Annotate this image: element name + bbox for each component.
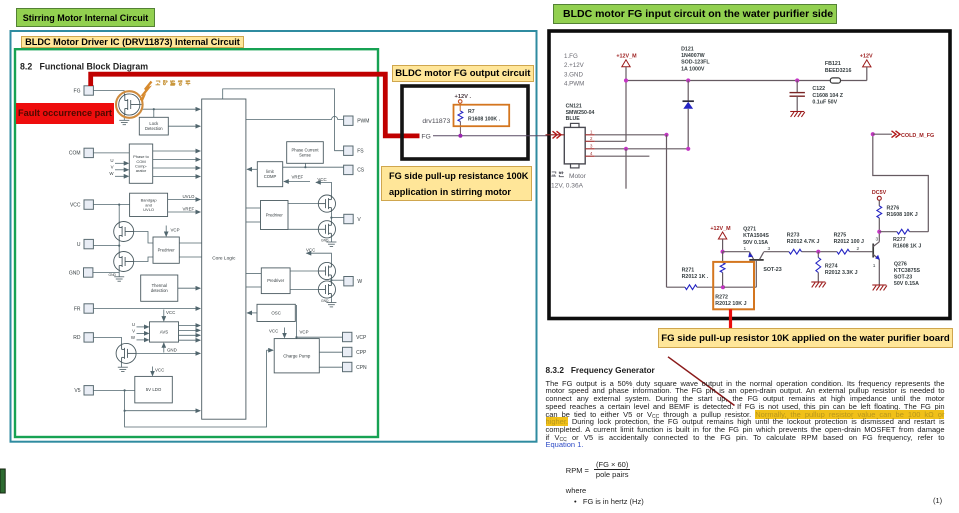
dark red stray annotation stroke over paragraph — [668, 357, 735, 406]
svg-text:SOT-23: SOT-23 — [894, 275, 912, 281]
orange highlight box around R7 — [454, 105, 510, 127]
svg-text:C1608 104 Z: C1608 104 Z — [812, 93, 843, 99]
svg-text:UVLO: UVLO — [183, 194, 196, 199]
svg-text:FR: FR — [74, 306, 81, 312]
right top predriver block — [261, 201, 289, 230]
connector pin stubs 1-4 — [585, 134, 595, 136]
pin FG — [84, 86, 93, 95]
pin V5 — [84, 386, 93, 395]
svg-text:GND: GND — [167, 348, 177, 353]
svg-text:Predriver: Predriver — [266, 212, 284, 217]
svg-text:V: V — [357, 217, 361, 223]
svg-text:Detection: Detection — [145, 126, 163, 131]
V phase node wires — [330, 212, 332, 221]
svg-text:Charge Pump: Charge Pump — [283, 353, 311, 358]
pin PWM — [344, 116, 353, 125]
V high-side mosfet — [318, 195, 335, 212]
net label COLD_M_FG with chevrons — [892, 131, 901, 138]
caption FG side pull-up resistance 100K application in stirring motor — [381, 166, 532, 201]
wire lock detection to core logic — [168, 125, 200, 127]
pin FR — [84, 304, 93, 313]
wire GND net from connector pin 3 — [595, 148, 688, 150]
main +12V bus wire — [626, 80, 830, 82]
wires core logic to right bottom predriver — [246, 273, 261, 275]
pin W — [344, 277, 353, 286]
charge pump block — [274, 339, 319, 373]
svg-text:FB121: FB121 — [825, 61, 841, 67]
svg-text:PWM: PWM — [357, 119, 369, 125]
wire +12V_M down to connector pin 2 — [625, 67, 627, 142]
svg-text:CPN: CPN — [356, 365, 367, 371]
lock detection block — [139, 117, 168, 135]
svg-text:4.PWM: 4.PWM — [564, 81, 584, 88]
section 8.3.2 frequency generator text — [546, 365, 655, 375]
U high-side mosfet — [114, 222, 134, 242]
pin CPN — [343, 362, 352, 371]
gate wires from U mosfets to left predriver — [134, 232, 153, 244]
svg-text:R273: R273 — [787, 233, 800, 239]
wire core logic to PWM pin with hop — [246, 116, 344, 119]
thermal detection block — [141, 275, 178, 301]
svg-text:VCC: VCC — [306, 247, 315, 252]
bandgap and UVLO block — [130, 193, 168, 216]
svg-text:CPP: CPP — [356, 350, 367, 356]
pull-up resistor R276 R1608 10K — [878, 200, 880, 206]
svg-text:SOT-23: SOT-23 — [763, 267, 781, 273]
svg-text:R277: R277 — [893, 237, 906, 243]
emitter wire +12V_M to Q271 — [721, 250, 725, 254]
wire FG mosfet gate to core logic with lock-detection tap — [140, 104, 142, 106]
svg-text:FG: FG — [421, 133, 430, 140]
svg-text:Sense: Sense — [299, 153, 312, 158]
red fault occurrence callout box — [16, 103, 114, 124]
svg-text:R2012 3.3K J: R2012 3.3K J — [825, 270, 858, 276]
svg-text:Q271: Q271 — [743, 227, 756, 233]
orange highlight box around R272 — [713, 262, 754, 309]
svg-text:3: 3 — [876, 237, 879, 243]
svg-text:0.1uF 50V: 0.1uF 50V — [812, 99, 837, 105]
svg-text:+12V: +12V — [860, 54, 873, 60]
svg-text:C122: C122 — [812, 86, 825, 92]
phase current sense block — [287, 142, 324, 164]
svg-text:arator: arator — [136, 168, 147, 173]
svg-text:5V LDO: 5V LDO — [146, 387, 162, 392]
green outline box around functional block diagram — [15, 49, 378, 437]
svg-text:FS: FS — [357, 149, 364, 155]
wire RD mosfet gate to core logic — [136, 352, 200, 354]
AVS block — [150, 322, 179, 342]
pin VCC — [84, 200, 93, 209]
svg-text:Q276: Q276 — [894, 261, 907, 267]
svg-text:R2012 10K J: R2012 10K J — [715, 301, 746, 307]
svg-text:Core Logic: Core Logic — [212, 256, 236, 262]
svg-text:V: V — [132, 329, 135, 334]
pin GND — [84, 268, 93, 277]
FG output wire to water purifier board — [433, 135, 549, 137]
svg-text:R276: R276 — [887, 206, 900, 212]
svg-text:VCC: VCC — [166, 310, 175, 315]
wire FG net from connector pin 1 — [595, 134, 667, 136]
V5 net bottom wire to charge pump — [125, 350, 267, 427]
gate wires right top predriver to V mosfets — [288, 203, 318, 205]
svg-text:D121: D121 — [681, 47, 694, 53]
svg-text:U: U — [132, 322, 135, 327]
orange fault highlight circle on FG mosfet — [116, 91, 143, 118]
svg-text:50V 0.15A: 50V 0.15A — [894, 281, 919, 287]
Korean motor label (gyo-ban Motor 12V 0.36A) — [551, 172, 556, 176]
svg-text:W: W — [109, 171, 114, 176]
pin V — [344, 214, 353, 223]
W phase node wires — [330, 280, 332, 281]
wire +12V to resistor R7 — [459, 103, 461, 111]
ground under W pair — [330, 298, 332, 302]
svg-text:V: V — [111, 165, 114, 170]
wire VCC pin to bandgap — [93, 204, 129, 206]
svg-text:VCC: VCC — [269, 329, 278, 334]
svg-text:R1608 100K .: R1608 100K . — [468, 116, 501, 122]
right bottom predriver block — [261, 268, 290, 294]
svg-text:COM: COM — [69, 151, 81, 157]
gate wires right bottom predriver to W mosfets — [290, 270, 318, 272]
svg-text:1N4007W: 1N4007W — [681, 53, 705, 59]
pin RD — [84, 333, 93, 342]
svg-text:VCP: VCP — [356, 335, 367, 341]
caption stirring motor internal circuit — [16, 8, 155, 27]
svg-text:1: 1 — [873, 263, 876, 269]
svg-text:VREF: VREF — [183, 206, 195, 211]
svg-text:3: 3 — [590, 144, 593, 149]
svg-text:U: U — [77, 242, 81, 248]
svg-text:R274: R274 — [825, 263, 838, 269]
svg-text:+12V_M: +12V_M — [710, 226, 731, 232]
svg-text:1: 1 — [590, 130, 593, 135]
ground under RD mosfet — [121, 363, 123, 367]
equation RPM formula — [566, 460, 631, 479]
red input chevrons into connector from stirring motor — [546, 134, 565, 136]
wire VCC junction down to U high-side mosfet — [118, 205, 120, 222]
svg-text:BEED3216: BEED3216 — [825, 68, 852, 74]
svg-text:12V, 0.36A: 12V, 0.36A — [551, 183, 584, 190]
W high-side mosfet — [318, 262, 335, 279]
caption BLDC motor FG output circuit — [392, 65, 535, 82]
svg-text:SMW250-04: SMW250-04 — [566, 110, 595, 116]
wire COM pin to comparator — [93, 152, 129, 154]
W low-side mosfet — [318, 281, 335, 298]
pull-up resistor R272 R2012 10K — [722, 252, 724, 263]
svg-text:VREF: VREF — [292, 175, 304, 180]
svg-text:Motor: Motor — [569, 173, 587, 180]
svg-text:R7: R7 — [468, 109, 475, 115]
pin VCP — [343, 332, 352, 341]
top bus core logic to FS pin — [223, 89, 344, 151]
svg-text:4: 4 — [590, 151, 593, 156]
ground under FG mosfet — [123, 115, 125, 121]
ground under V pair — [330, 238, 332, 242]
wires charge pump to CPP CPN pins — [319, 351, 342, 353]
svg-text:BLUE: BLUE — [566, 116, 581, 122]
svg-text:R1608 10K J: R1608 10K J — [887, 212, 918, 218]
teal outline box around stirring-motor internal circuit — [11, 31, 537, 442]
pin CPP — [343, 347, 352, 356]
svg-text:V5: V5 — [74, 388, 80, 394]
svg-text:50V 0.15A: 50V 0.15A — [743, 240, 768, 246]
transistor Q271 symbol — [749, 252, 753, 260]
svg-text:detection: detection — [151, 288, 169, 293]
wires left predriver to core logic — [179, 242, 201, 244]
svg-text:CN121: CN121 — [566, 104, 582, 110]
wire V5 pin to 5V LDO and core logic — [93, 389, 134, 391]
svg-text:2.+12V: 2.+12V — [564, 62, 585, 69]
svg-text:VCC: VCC — [317, 177, 326, 182]
transistor Q276 KTC3875S symbol — [872, 244, 874, 258]
svg-text:3.GND: 3.GND — [564, 71, 583, 78]
svg-text:OSC: OSC — [271, 310, 281, 315]
svg-text:U: U — [110, 158, 113, 163]
svg-text:R2012 1K .: R2012 1K . — [682, 274, 709, 280]
svg-text:VCP: VCP — [171, 228, 180, 233]
wire thermal detection to core logic — [178, 287, 200, 289]
svg-text:Predriver: Predriver — [158, 248, 176, 253]
svg-text:R271: R271 — [682, 268, 695, 274]
phase to COM comparator block — [129, 144, 152, 183]
resistor R7 R1608 100K — [458, 111, 463, 122]
wire OSC to core logic — [247, 312, 257, 314]
svg-text:R272: R272 — [715, 295, 728, 301]
orange callout arrow from Korean label to FG mosfet — [142, 82, 152, 97]
Korean label fault generator (go-jang-bal-saeng-bu) — [156, 81, 161, 85]
pin FS — [344, 146, 353, 155]
FG mosfet Q-FG — [119, 94, 140, 115]
caption FG side pull-up resistor 10K applied on the water purifier board — [658, 328, 953, 348]
svg-text:+12V .: +12V . — [455, 94, 472, 100]
AVS outputs to core logic — [179, 325, 201, 327]
svg-text:VCC: VCC — [155, 368, 164, 373]
svg-text:KTA1504S: KTA1504S — [743, 233, 769, 239]
U low-side mosfet — [114, 252, 134, 272]
wire FR pin to core logic — [93, 308, 200, 310]
resistor R274 R2012 3.3K to ground — [817, 252, 819, 258]
svg-text:R1608 1K J: R1608 1K J — [893, 244, 921, 250]
svg-text:1.FG: 1.FG — [564, 53, 578, 60]
svg-text:R2012 100 J: R2012 100 J — [834, 239, 864, 245]
caption BLDC motor FG input circuit on the water purifier side — [553, 4, 837, 24]
svg-text:RD: RD — [73, 335, 81, 341]
capacitor C122 0.1uF — [796, 81, 798, 93]
svg-text:FG: FG — [74, 88, 81, 94]
wire PWM net from connector pin 4 — [595, 155, 650, 157]
black box BLDC motor FG output circuit — [402, 86, 528, 159]
comparator outputs to core logic — [153, 150, 201, 152]
svg-text:CS: CS — [357, 168, 365, 174]
small green page-edge mark bottom left — [0, 469, 5, 493]
Q271 base wire down to FG node — [755, 260, 757, 287]
pin CS — [344, 165, 353, 174]
svg-text:VCP: VCP — [300, 330, 309, 335]
GND wire and ground under U pair — [118, 272, 120, 277]
wire RD pin to RD mosfet — [93, 336, 121, 338]
svg-text:R275: R275 — [834, 233, 847, 239]
left predriver block — [153, 237, 179, 263]
wires core logic to right top predriver — [246, 207, 261, 209]
svg-text:SOD-123FL: SOD-123FL — [681, 60, 710, 66]
svg-text:2: 2 — [590, 136, 593, 141]
svg-text:UVLO: UVLO — [143, 207, 154, 212]
svg-text:COMP: COMP — [264, 174, 277, 179]
svg-text:DC5V: DC5V — [872, 190, 887, 196]
wire limit COMP output to core logic — [247, 168, 257, 170]
wire FG pin to FG mosfet drain — [93, 90, 124, 92]
svg-text:+12V_M: +12V_M — [616, 54, 637, 60]
svg-text:W: W — [357, 279, 362, 285]
V low-side mosfet — [318, 221, 335, 238]
wire COLD_M_FG output routing — [873, 134, 929, 232]
svg-text:AVS: AVS — [160, 329, 169, 334]
svg-text:R2012 4.7K J: R2012 4.7K J — [787, 239, 820, 245]
svg-text:W: W — [131, 335, 136, 340]
wire CS pin to limit comp and sense — [283, 166, 344, 168]
svg-text:GND: GND — [69, 270, 81, 276]
svg-text:drv11873: drv11873 — [422, 118, 450, 125]
OSC block — [257, 304, 295, 321]
thick red annotation wire from FG pin to FG output circuit box — [91, 74, 420, 136]
svg-text:COLD_M_FG: COLD_M_FG — [901, 133, 934, 139]
svg-text:VCC: VCC — [70, 202, 81, 208]
red callout line from R272 to caption — [729, 309, 732, 328]
svg-text:1A 1000V: 1A 1000V — [681, 66, 705, 72]
svg-text:KTC3875S: KTC3875S — [894, 268, 921, 274]
RD mosfet — [116, 343, 136, 363]
pin COM — [84, 148, 93, 157]
caption BLDC motor driver IC internal circuit — [21, 36, 244, 48]
pin U — [84, 239, 93, 248]
U phase node wires — [118, 242, 120, 252]
5V LDO block — [135, 376, 173, 403]
limit COMP block — [257, 162, 282, 187]
svg-text:Predriver: Predriver — [267, 278, 285, 283]
svg-text:8.2 Functional Block Diagram: 8.2 Functional Block Diagram — [20, 61, 148, 71]
black box BLDC motor FG input circuit on water purifier side — [549, 31, 950, 319]
core logic block — [202, 99, 246, 419]
